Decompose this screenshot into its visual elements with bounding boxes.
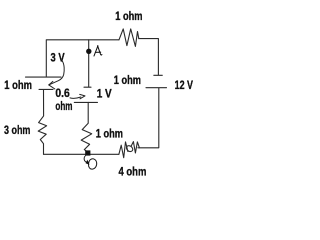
svg-text:1 ohm: 1 ohm [115,10,142,23]
svg-text:4 ohm: 4 ohm [119,166,147,179]
svg-text:3 ohm: 3 ohm [4,124,30,137]
svg-text:12 V: 12 V [175,79,194,92]
svg-text:ohm: ohm [55,100,72,113]
svg-text:1 ohm: 1 ohm [114,74,141,87]
svg-text:1 ohm: 1 ohm [4,79,32,92]
svg-text:0.6: 0.6 [55,87,70,100]
svg-text:1 ohm: 1 ohm [96,128,123,141]
svg-text:3 V: 3 V [51,52,65,65]
svg-text:1 V: 1 V [97,87,112,100]
